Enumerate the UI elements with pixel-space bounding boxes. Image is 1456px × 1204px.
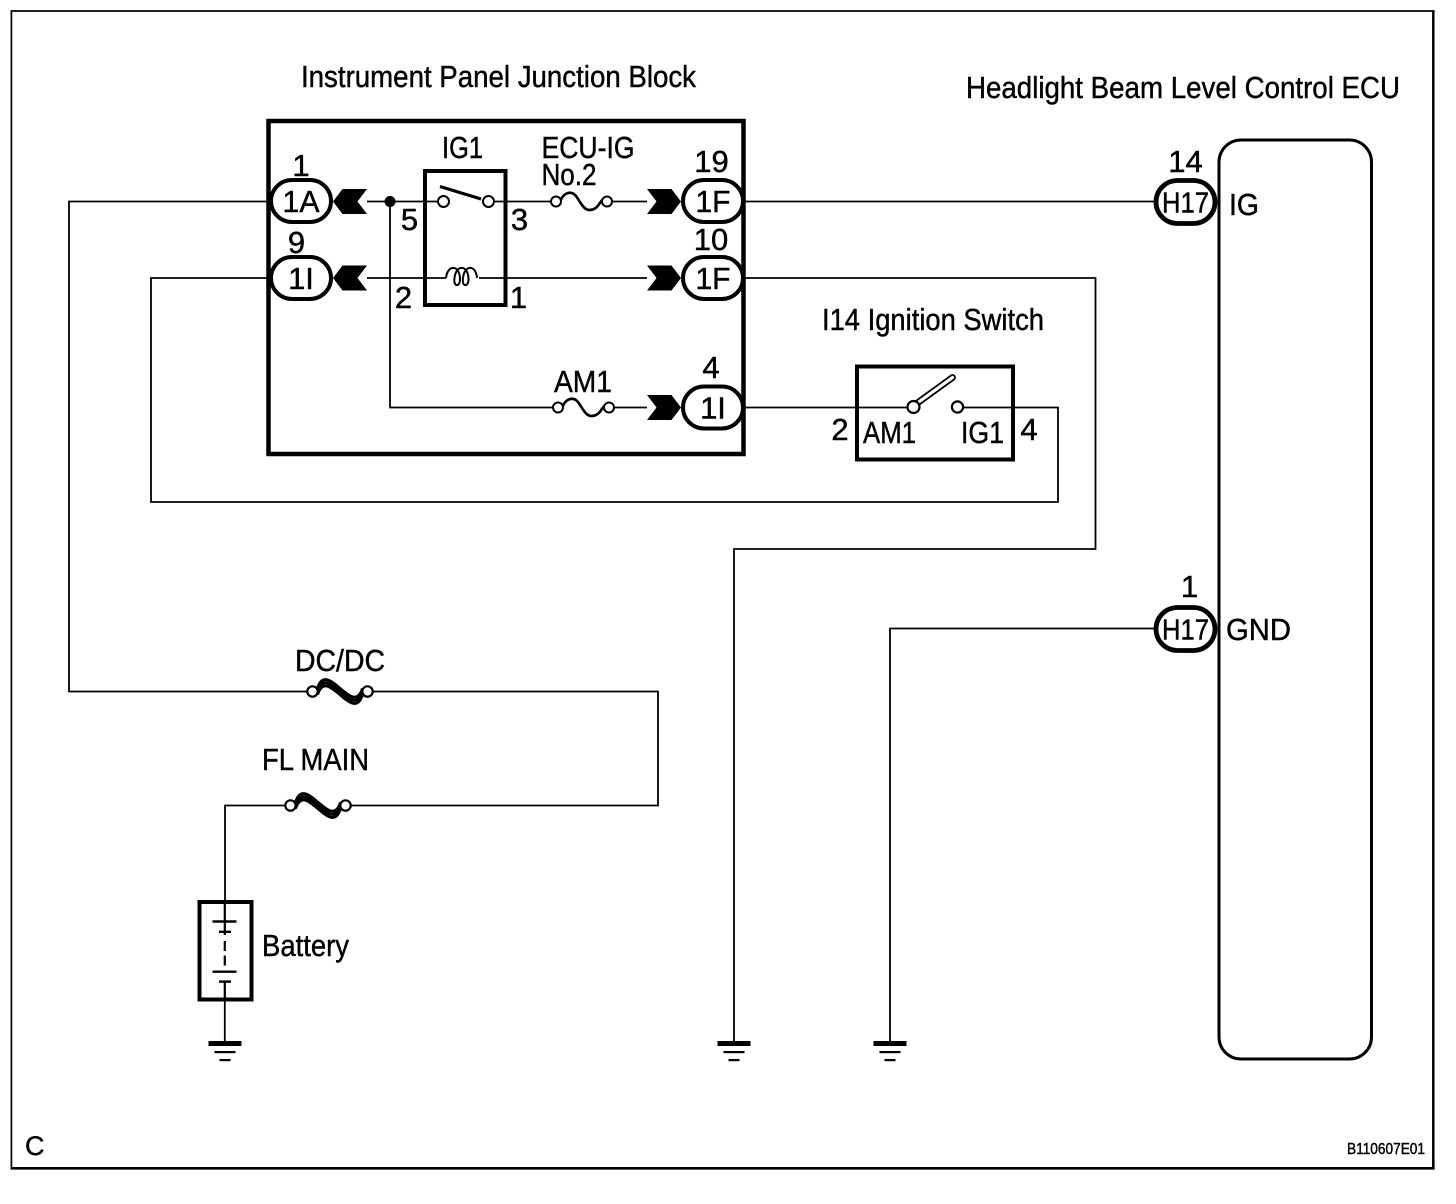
connector oval 1I pin4 — [683, 387, 743, 429]
svg-text:4: 4 — [702, 350, 719, 385]
wire: 1I pin4 to ignition switch pin2 — [745, 407, 908, 409]
wire: left power feed from 1A down to DC/DC row — [69, 202, 308, 692]
svg-text:No.2: No.2 — [542, 157, 597, 192]
svg-text:2: 2 — [831, 412, 848, 447]
svg-text:1A: 1A — [283, 184, 320, 219]
wire: row2 coil line 1I arrow to coil — [367, 277, 446, 279]
svg-text:1: 1 — [1181, 569, 1198, 604]
svg-text:Headlight Beam Level Control E: Headlight Beam Level Control ECU — [966, 70, 1400, 105]
svg-text:1F: 1F — [696, 184, 731, 219]
connector arrow into 1I pin4 — [647, 395, 681, 420]
fusible link FL MAIN — [285, 794, 350, 818]
connector arrow into 1A — [333, 189, 367, 214]
svg-text:C: C — [25, 1131, 45, 1161]
svg-text:3: 3 — [511, 202, 528, 237]
svg-text:14: 14 — [1168, 144, 1202, 179]
wire: relay pin3 to fuse ECU-IG — [494, 201, 551, 203]
ground (1F pin10 circuit) — [718, 1041, 751, 1061]
wire: 1I loop left down and across to ignition switch pin 4 — [151, 278, 1058, 502]
wire: AM1 fuse to 1I pin4 arrow — [612, 407, 647, 409]
ECU body — [1219, 140, 1372, 1059]
connector oval 1I left — [271, 257, 331, 299]
wire: coil to 1F pin10 arrow — [479, 277, 647, 279]
ignition switch box — [857, 367, 1013, 460]
wire: fuse ECU-IG to 1F arrow — [612, 201, 647, 203]
wire: H17 GND to ground — [890, 629, 1155, 1042]
svg-text:IG1: IG1 — [961, 415, 1004, 450]
svg-text:10: 10 — [694, 222, 728, 257]
svg-text:B110607E01: B110607E01 — [1347, 1141, 1425, 1158]
relay coil — [446, 268, 477, 285]
fusible link DC/DC — [307, 680, 372, 704]
wire: DC/DC to right then down to FL MAIN row — [348, 692, 658, 806]
svg-text:1I: 1I — [288, 261, 314, 296]
ignition switch contacts — [908, 401, 920, 413]
svg-text:Instrument Panel Junction Bloc: Instrument Panel Junction Block — [301, 59, 696, 94]
connector oval 1F pin19 — [683, 180, 743, 222]
ground (battery) — [209, 1041, 242, 1061]
relay switch lever — [440, 187, 481, 200]
svg-text:Battery: Battery — [262, 928, 349, 963]
fuse ECU-IG No.2 — [551, 193, 612, 210]
svg-text:4: 4 — [1020, 412, 1037, 447]
svg-text:19: 19 — [694, 144, 728, 179]
wire: 1F pin10 right to ground via loop — [734, 278, 1096, 1041]
svg-text:5: 5 — [401, 202, 418, 237]
wire: 1F pin19 to ECU H17 IG — [745, 201, 1155, 203]
svg-text:1: 1 — [510, 280, 527, 315]
svg-text:IG: IG — [1229, 187, 1259, 222]
svg-text:2: 2 — [395, 280, 412, 315]
connector arrow into 1F pin10 — [647, 266, 681, 291]
svg-text:1F: 1F — [696, 261, 731, 296]
ignition switch lever — [918, 378, 953, 403]
battery — [200, 902, 252, 1001]
fuse AM1 — [553, 399, 614, 416]
svg-text:IG1: IG1 — [442, 130, 483, 165]
svg-text:DC/DC: DC/DC — [295, 643, 385, 678]
connector oval 1F pin10 — [683, 257, 743, 299]
connector oval H17 IG — [1156, 181, 1215, 224]
svg-text:H17: H17 — [1162, 615, 1209, 647]
connector oval 1A — [271, 180, 331, 222]
junction block box — [269, 121, 744, 454]
svg-text:I14 Ignition Switch: I14 Ignition Switch — [822, 302, 1044, 337]
svg-text:1: 1 — [292, 148, 309, 183]
svg-text:AM1: AM1 — [554, 364, 612, 399]
connector oval H17 GND — [1156, 608, 1215, 651]
relay IG1 box — [425, 171, 506, 305]
node A junction dot — [385, 196, 396, 207]
ground (ECU GND) — [874, 1041, 907, 1061]
connector arrow into 1F pin19 — [647, 189, 681, 214]
connector arrow into 1I left — [333, 266, 367, 291]
svg-text:FL MAIN: FL MAIN — [262, 742, 369, 777]
wire: row1 arrow to relay pin5 — [367, 201, 437, 203]
svg-text:GND: GND — [1226, 612, 1291, 647]
wire: FL MAIN to battery top — [225, 806, 286, 903]
svg-text:9: 9 — [288, 225, 305, 260]
svg-text:AM1: AM1 — [863, 415, 916, 450]
wire: battery to ground — [224, 1001, 226, 1041]
svg-text:H17: H17 — [1162, 188, 1209, 220]
wire: ignition switch pin4 exit — [963, 407, 1015, 409]
relay switch contacts — [438, 196, 494, 207]
wire: branch from node A down to AM1 fuse row — [390, 202, 553, 408]
svg-text:1I: 1I — [700, 391, 726, 426]
